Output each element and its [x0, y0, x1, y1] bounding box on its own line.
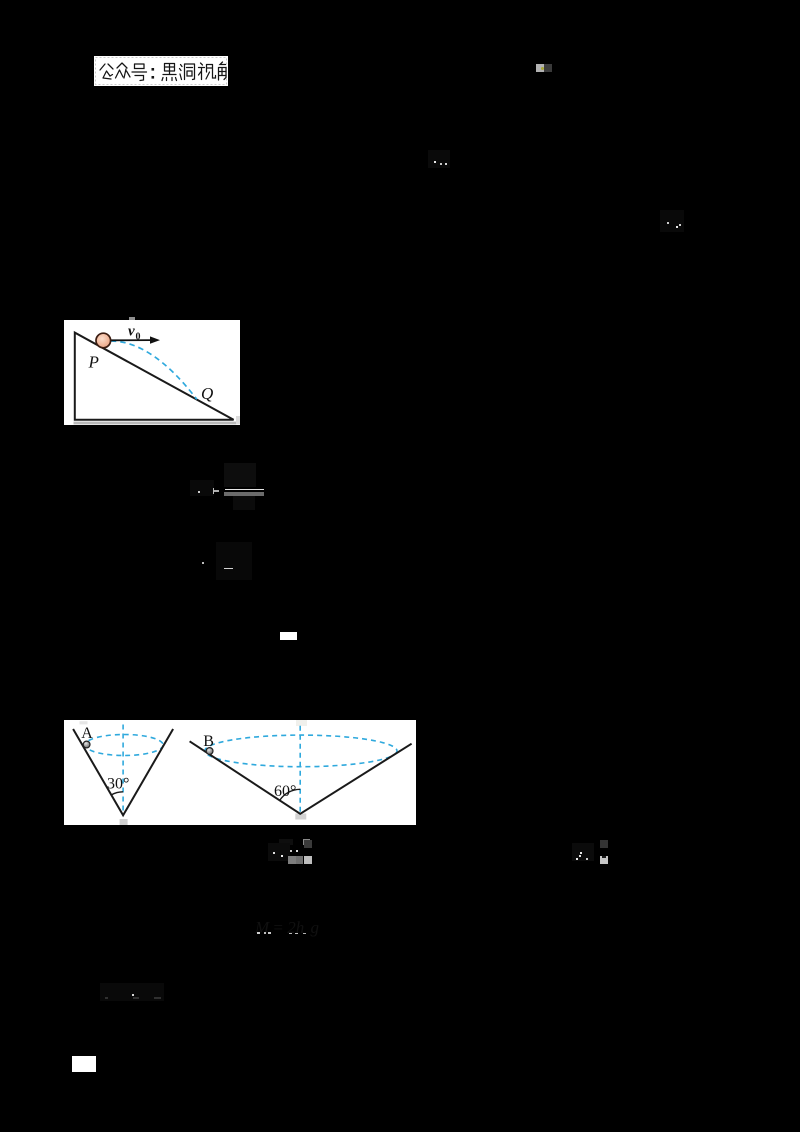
svg-text:A: A: [82, 725, 94, 742]
公: [100, 64, 113, 79]
top-right small squares: [536, 64, 544, 72]
cluster B: [572, 843, 594, 861]
：: [152, 68, 155, 71]
equation M = 2h/g (very faint): [255, 918, 325, 938]
svg-text:P: P: [88, 352, 99, 371]
below fig2 marks: [279, 839, 293, 846]
small white rectangle mid page: [280, 632, 297, 640]
svg-text:B: B: [204, 732, 215, 749]
svg-text:Q: Q: [201, 384, 213, 403]
figure 1: inclined plane: [64, 320, 240, 425]
equation 2 fragments: [216, 542, 252, 580]
header white box with Chinese text: [94, 56, 228, 86]
left cone: [122, 724, 124, 815]
号: [132, 64, 147, 81]
faint specks group 1: [428, 150, 450, 168]
svg-text:30°: 30°: [107, 775, 129, 792]
黑: [162, 64, 177, 81]
bottom-left white rectangle: [72, 1056, 96, 1072]
svg-text:v: v: [128, 323, 135, 339]
svg-text:60°: 60°: [274, 783, 296, 800]
众: [116, 63, 131, 78]
cluster A: [268, 843, 290, 861]
洞: [180, 64, 195, 80]
equation 1 fragments: [224, 463, 256, 487]
figure 2: two cones: [64, 720, 416, 825]
svg-text:0: 0: [136, 331, 141, 342]
视: [199, 63, 216, 80]
right cone: [300, 725, 302, 813]
faint equation bottom-left: [100, 983, 164, 1001]
角: [219, 62, 227, 80]
figure 1 top tick: [129, 317, 135, 320]
faint specks group 2: [660, 210, 684, 232]
